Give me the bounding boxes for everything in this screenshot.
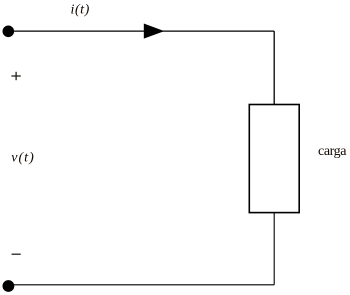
label &#8722; (voltage polarity) [12, 253, 21, 255]
svg-text:i(t): i(t) [71, 2, 90, 17]
node: bottom-left terminal [2, 280, 14, 292]
svg-text:carga: carga [318, 144, 347, 159]
current arrow on top wire [144, 24, 165, 39]
node: top-left terminal [3, 26, 15, 38]
wire: bottom horizontal from bottom corner to bottom-left terminal [8, 284, 274, 286]
wire: right vertical from load bottom to bottom corner [273, 213, 275, 285]
wire: top horizontal from top-left terminal to top-right corner [8, 30, 274, 32]
load (carga) rectangle [249, 105, 299, 213]
label + (voltage polarity) [11, 72, 20, 80]
svg-text:v(t): v(t) [11, 150, 34, 165]
wire: right vertical from top corner down to load [273, 31, 275, 105]
